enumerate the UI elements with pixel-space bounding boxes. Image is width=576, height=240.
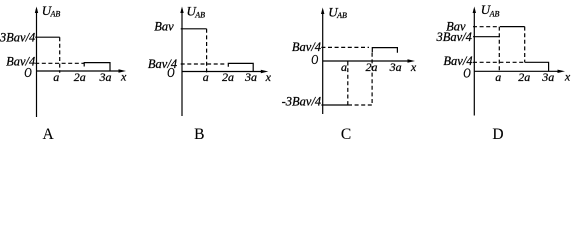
svg-text:B: B xyxy=(194,126,204,141)
curve segment at Bav from a to 2a xyxy=(500,26,525,28)
svg-text:3a: 3a xyxy=(244,70,257,84)
x-axis A xyxy=(37,70,121,72)
step Bav/4 from 2a to 3a A xyxy=(84,63,110,71)
svg-text:a: a xyxy=(341,60,347,74)
x-axis arrow C xyxy=(408,59,416,62)
dashed horizontal at Bav/4 A xyxy=(35,62,84,64)
curve segment at 3Bav/4 from 0 to a xyxy=(35,36,60,38)
svg-text:3a: 3a xyxy=(541,70,554,84)
svg-text:3Bav/4: 3Bav/4 xyxy=(435,30,471,44)
curve segment at Bav from 0 to a xyxy=(181,28,207,30)
y-axis arrow A xyxy=(35,7,38,14)
svg-text:x: x xyxy=(120,70,127,84)
svg-text:3a: 3a xyxy=(389,60,402,74)
dashed horizontal at Bav/4 B xyxy=(181,63,225,65)
svg-text:AB: AB xyxy=(489,9,500,18)
svg-text:AB: AB xyxy=(194,10,205,19)
svg-text:O: O xyxy=(311,53,318,68)
x-axis D xyxy=(474,70,559,72)
curve segment at 3Bav/4 from 0 to a xyxy=(473,36,500,38)
dashed vertical at a D xyxy=(498,27,500,72)
dashed horizontal at Bav/4 D xyxy=(473,61,524,63)
step Bav/4 from 2a to 3a B xyxy=(228,63,253,71)
step Bav/4 from 2a to 3a D xyxy=(525,62,549,71)
svg-text:3Bav/4: 3Bav/4 xyxy=(0,31,35,45)
svg-text:2a: 2a xyxy=(74,70,86,84)
y-axis B xyxy=(181,9,183,116)
svg-text:Bav/4: Bav/4 xyxy=(443,54,472,68)
dashed horizontal at Bav level D xyxy=(473,26,499,28)
svg-text:Bav/4: Bav/4 xyxy=(292,40,321,54)
svg-text:a: a xyxy=(53,70,59,84)
dashed vertical at 2a C xyxy=(371,53,373,105)
y-axis arrow B xyxy=(180,7,183,14)
svg-text:x: x xyxy=(265,70,272,84)
svg-text:AB: AB xyxy=(336,11,347,20)
svg-text:a: a xyxy=(495,70,501,84)
y-axis arrow D xyxy=(473,7,476,14)
x-axis arrow A xyxy=(119,69,127,72)
svg-text:2a: 2a xyxy=(518,70,530,84)
svg-text:2a: 2a xyxy=(222,70,234,84)
y-axis D xyxy=(473,9,475,116)
dashed vertical at a B xyxy=(206,29,208,73)
svg-text:Bav: Bav xyxy=(154,20,174,34)
step Bav/4 from 2a to 3a C xyxy=(372,48,397,53)
y-axis arrow C xyxy=(321,8,324,15)
x-axis arrow D xyxy=(558,70,566,73)
svg-text:A: A xyxy=(42,126,54,141)
dashed vertical at a below axis C xyxy=(347,62,349,106)
x-axis B xyxy=(182,71,262,73)
svg-text:a: a xyxy=(203,70,209,84)
svg-text:D: D xyxy=(492,126,503,141)
svg-text:Bav/4: Bav/4 xyxy=(6,54,35,68)
svg-text:AB: AB xyxy=(50,10,61,19)
dashed vertical at a A xyxy=(59,37,61,73)
svg-text:-3Bav/4: -3Bav/4 xyxy=(282,95,322,109)
dashed horizontal at -3Bav/4 from a to 2a xyxy=(348,104,374,106)
y-axis A xyxy=(36,9,38,117)
svg-text:x: x xyxy=(410,60,417,74)
dashed horizontal at Bav/4 C xyxy=(321,46,369,48)
svg-text:C: C xyxy=(341,126,351,141)
x-axis C xyxy=(323,60,409,62)
svg-text:Bav/4: Bav/4 xyxy=(148,57,177,71)
svg-text:O: O xyxy=(463,66,471,81)
y-axis C xyxy=(322,10,324,114)
svg-text:3a: 3a xyxy=(99,70,112,84)
dashed vertical at 2a D xyxy=(524,27,526,63)
svg-text:2a: 2a xyxy=(366,60,378,74)
x-axis arrow B xyxy=(261,70,269,73)
svg-text:x: x xyxy=(564,70,571,84)
curve segment at -3Bav/4 from 0 to a xyxy=(321,104,348,106)
